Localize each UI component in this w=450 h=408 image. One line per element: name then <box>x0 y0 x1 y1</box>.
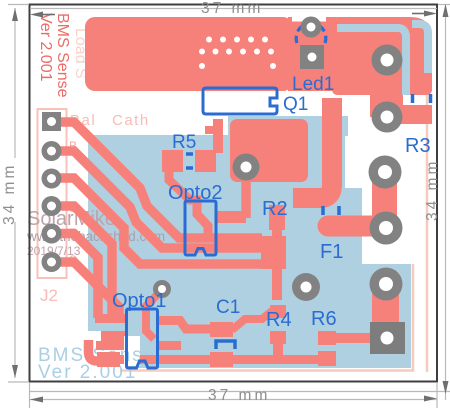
arrow bottom-right <box>424 396 437 402</box>
trace via to opto1 <box>146 292 160 312</box>
opto1 left stub 2 <box>96 341 126 350</box>
svg-text:34 mm: 34 mm <box>1 163 18 225</box>
trace opto1 to C1 <box>157 321 211 330</box>
resistor R5 left pad <box>162 150 183 172</box>
joint H2 to R2 <box>261 236 286 269</box>
arrow right-top <box>443 4 449 17</box>
trace J2 pin1 (route A) <box>52 122 262 238</box>
arrow right-bottom <box>443 381 449 394</box>
trace J2 pin6 diagonal <box>52 262 119 318</box>
trace pad5 to pad6 <box>372 283 399 338</box>
resistor R5 right pad <box>195 150 216 172</box>
dim line top <box>30 8 437 10</box>
ground pour bottom layer lower right region <box>345 264 411 368</box>
optocoupler Opto2 outline <box>185 201 216 255</box>
connector J2 pad 4 <box>42 196 62 216</box>
LED Led1 outline right arc <box>319 26 326 44</box>
svg-text:37 mm: 37 mm <box>201 0 263 17</box>
resistor R6 pad 2 <box>318 351 336 366</box>
channel inner vertical <box>402 34 410 95</box>
LED Led1 outline left arc <box>296 26 303 44</box>
channel outer corner <box>412 24 428 73</box>
pour bridge at Led1 <box>288 17 336 91</box>
silkscreen pale: connector J2 outline <box>38 109 67 278</box>
red block with via U-area <box>230 119 308 182</box>
resistor R2 pad 1 <box>269 205 285 230</box>
terminal pad 4 <box>370 212 403 245</box>
svg-text:Ver 2.001: Ver 2.001 <box>38 362 137 383</box>
resistor R6 pad 1 <box>318 331 336 345</box>
svg-text:R2: R2 <box>262 198 288 220</box>
arrow top-left <box>30 12 43 18</box>
bottom bus trace <box>97 355 336 364</box>
fuse F1 trace to pad4 <box>328 216 378 237</box>
notch above Led1 <box>292 16 326 22</box>
trace J2 pin3 diagonal <box>52 178 266 264</box>
resistor R2 pad 2 <box>269 242 285 259</box>
terminal pad 6 (square) <box>370 322 405 354</box>
ground pour bottom layer strip near F1 <box>345 188 362 272</box>
channel top <box>337 28 406 38</box>
capacitor C1 bottom pad <box>210 352 233 367</box>
capacitor C1 top pad <box>210 322 233 337</box>
vent holes in pour <box>199 37 276 70</box>
trace pad3 to pad4 <box>372 172 397 228</box>
svg-text:R4: R4 <box>266 309 292 331</box>
stub R5 <box>205 126 214 134</box>
svg-text:Ver 2.001: Ver 2.001 <box>37 13 54 82</box>
resistor R2 body trace <box>272 212 282 300</box>
silk knockout white bottom-left <box>85 331 126 368</box>
copper pour top-left <box>85 17 293 91</box>
copper pour top-right <box>332 17 432 95</box>
trace R5 pad into opto2 <box>169 166 208 242</box>
dim line left <box>14 8 16 378</box>
svg-text:J2: J2 <box>40 286 58 305</box>
extension bottom-left <box>8 382 30 408</box>
extension top-left <box>8 4 29 6</box>
terminal pad 1 <box>372 45 403 76</box>
svg-text:Opto1: Opto1 <box>112 290 166 312</box>
via near R5 <box>233 154 260 181</box>
arrow bottom-left <box>30 397 43 403</box>
trace R6 to pad6 <box>336 333 372 343</box>
terminal pad 3 <box>369 156 402 189</box>
fuse F1 marks <box>323 206 339 215</box>
arrow left-bottom <box>12 365 18 378</box>
ground pour bottom layer upper strip <box>228 116 348 136</box>
resistor R3 bottom pad <box>396 105 432 124</box>
opto1 left stub 1 <box>95 314 126 323</box>
silkscreen red: BMS Sense / Ver 2.001 (rotated) <box>37 13 71 98</box>
ground pour bottom layer main region <box>88 135 345 368</box>
svg-text:R3: R3 <box>405 135 431 157</box>
resistor R4 pad A <box>270 305 286 318</box>
svg-text:34 mm: 34 mm <box>424 159 441 221</box>
bottom bus left pad <box>97 352 120 367</box>
pcb outline silk (pale) along blue region <box>120 264 413 371</box>
trace R4 to bottom bus <box>273 344 283 358</box>
dim line bottom <box>30 391 450 393</box>
svg-text:R6: R6 <box>311 308 337 330</box>
svg-text:Q1: Q1 <box>283 94 308 115</box>
svg-text:Opto2: Opto2 <box>168 182 222 204</box>
opto1 left middle bar <box>101 331 126 341</box>
resistor R3 strip <box>410 50 424 73</box>
connector J2 pad 1 (square) <box>42 112 61 131</box>
resistor R3 marks <box>413 94 431 103</box>
resistor R4 pad B <box>270 331 286 344</box>
opto2 right stub 1 <box>216 211 246 223</box>
terminal pad 5 <box>370 268 403 301</box>
svg-text:R5: R5 <box>172 132 196 153</box>
trace into bus left end <box>89 340 106 361</box>
trace via block to opto2 stub <box>241 178 251 218</box>
thick trace pour2 down to R2/F1 <box>293 98 332 198</box>
trace J2 pin5 diagonal <box>52 234 98 319</box>
trace J2 pin4 diagonal <box>52 206 112 320</box>
via near R4 <box>292 273 320 301</box>
extension bottom-right <box>30 382 437 408</box>
arrow left-top <box>12 8 18 21</box>
white patch inside Opto1 (silk knockout) <box>124 336 140 366</box>
trace J2 pin2 diagonal <box>52 151 266 248</box>
svg-text:F1: F1 <box>320 241 343 263</box>
connector J2 pad 2 <box>42 141 62 161</box>
pcb outline silk (pale) right edge <box>426 78 429 372</box>
connector J2 pad 6 <box>42 252 62 272</box>
dim line right <box>445 4 447 400</box>
LED Led1 square pad <box>300 45 324 69</box>
svg-text:BMS Sense: BMS Sense <box>54 13 71 98</box>
resistor R5 marks <box>186 154 193 168</box>
transistor Q1 outline <box>203 88 277 114</box>
svg-text:Led1: Led1 <box>292 74 334 95</box>
svg-text:C1: C1 <box>216 297 240 318</box>
capacitor C1 marks <box>216 341 235 349</box>
svg-text:Cath: Cath <box>112 112 150 129</box>
light blue channels over pour2 <box>337 24 428 95</box>
opto2 right stub 2 <box>216 238 262 252</box>
arrow top-right <box>424 11 437 17</box>
opto1 inner trace <box>146 310 154 339</box>
extension top-right <box>438 4 450 6</box>
via small left <box>153 280 171 298</box>
connector J2 pad 3 <box>42 169 62 189</box>
svg-text:37 mm: 37 mm <box>208 387 270 404</box>
trace pad2 to pour <box>370 90 403 117</box>
opto1 right stub 1 <box>157 341 181 350</box>
terminal pad 2 <box>372 102 403 133</box>
trace Q1 to R5 <box>213 119 223 153</box>
optocoupler Opto1 outline <box>127 309 158 368</box>
resistor R3 top pad <box>407 73 432 91</box>
trace C1 to R4 <box>232 311 272 330</box>
LED Led1 round pad <box>301 17 322 38</box>
connector J2 pad 5 <box>42 224 62 244</box>
